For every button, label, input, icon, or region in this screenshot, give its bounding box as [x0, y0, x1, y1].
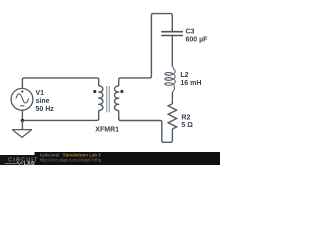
svg-text:sine: sine — [36, 98, 50, 105]
svg-text:C3: C3 — [186, 29, 195, 36]
footer url text — [40, 157, 102, 162]
wire: V1 bottom to ground junction — [21, 110, 23, 120]
CircuitLab logo — [5, 158, 39, 167]
svg-text:XFMR1: XFMR1 — [95, 126, 119, 133]
svg-text:50 Hz: 50 Hz — [36, 106, 55, 113]
label XFMR1 — [95, 126, 119, 133]
wire: L2 to R2 — [171, 92, 173, 104]
svg-text:LAB: LAB — [24, 161, 36, 165]
label L2 value — [180, 72, 201, 87]
label C3 value — [186, 29, 209, 44]
svg-text:http://circuitlab.com/c84p87cf: http://circuitlab.com/c84p87cfhg — [40, 157, 102, 162]
transformer XFMR1 secondary winding — [115, 86, 119, 111]
ground — [12, 120, 31, 137]
wire: R2 bottom return to XFMR1 secondary bottom — [119, 111, 173, 143]
transformer XFMR1 primary polarity dot — [93, 90, 96, 93]
footer title text — [40, 153, 102, 158]
svg-text:600 µF: 600 µF — [186, 37, 209, 44]
wire: V1 top to XFMR1 primary top — [22, 78, 98, 89]
wire: junction to XFMR1 primary bottom — [22, 111, 98, 121]
svg-text:L2: L2 — [180, 72, 188, 79]
transformer XFMR1 core — [107, 86, 110, 112]
node: junction dot at V1 minus / ground — [21, 119, 25, 123]
inductor L2 — [165, 66, 175, 92]
capacitor C3 — [161, 32, 183, 36]
label R2 value — [181, 115, 193, 130]
transformer XFMR1 primary winding — [99, 86, 103, 111]
svg-text:16 mH: 16 mH — [180, 80, 201, 87]
svg-text:V1: V1 — [36, 90, 45, 97]
resistor R2 — [168, 104, 176, 129]
svg-text:5 Ω: 5 Ω — [181, 122, 193, 129]
svg-text:R2: R2 — [181, 115, 190, 122]
transformer XFMR1 secondary polarity dot — [120, 90, 123, 93]
footer bar — [0, 152, 220, 165]
label V1 value — [36, 90, 55, 113]
wire: C3 to L2 — [171, 36, 173, 66]
voltage source V1 — [11, 88, 33, 110]
wire: XFMR1 secondary top to C3 — [119, 14, 173, 86]
